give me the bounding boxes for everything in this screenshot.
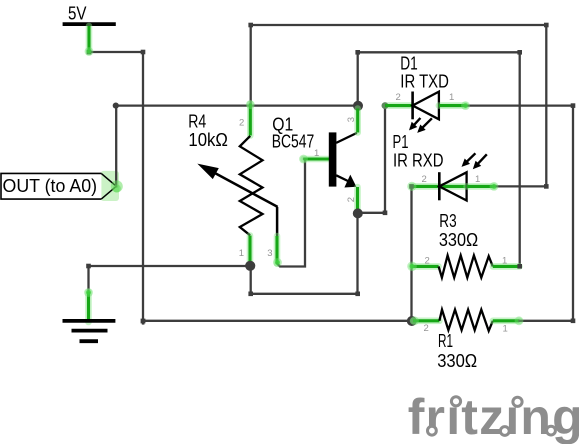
diode D1 body <box>413 92 439 120</box>
diode D1 pin 1 leg (green) <box>439 102 466 109</box>
glow endpoints overlay <box>84 47 523 325</box>
junction dot pot pin1 <box>245 261 255 271</box>
wire pot pin3 to base riser <box>277 159 305 267</box>
svg-text:IR TXD: IR TXD <box>400 72 449 92</box>
svg-text:3: 3 <box>267 248 272 259</box>
svg-text:R1: R1 <box>438 331 453 351</box>
svg-text:BC547: BC547 <box>272 132 315 152</box>
svg-text:1: 1 <box>475 174 480 185</box>
ground pin leg (green) <box>85 292 92 322</box>
resistor R1 zigzag body <box>439 310 492 331</box>
svg-text:1: 1 <box>239 248 244 259</box>
svg-text:1: 1 <box>503 324 508 335</box>
svg-text:3: 3 <box>346 117 357 122</box>
junction dot R1 left <box>407 316 417 326</box>
small endpoint dot D1 pin2 wire <box>382 102 389 109</box>
resistor R3 pin 2 leg (green) <box>412 263 439 270</box>
svg-text:2: 2 <box>239 117 244 128</box>
svg-text:2: 2 <box>425 256 430 267</box>
svg-text:2: 2 <box>346 197 357 202</box>
wire top rail 1 <box>251 25 547 186</box>
svg-text:R4: R4 <box>188 112 206 132</box>
svg-text:5V: 5V <box>68 4 87 24</box>
potentiometer R4 pin 3 leg (green) <box>274 236 281 264</box>
transistor Q1 body <box>329 132 357 187</box>
wire pot pin1 down to emitter rail <box>251 213 358 294</box>
diode D1 pin 2 leg (green) <box>385 102 413 109</box>
svg-text:R3: R3 <box>439 211 456 231</box>
svg-text:1: 1 <box>449 92 454 103</box>
wire 5V corner to vertical <box>89 51 143 53</box>
potentiometer R4 wiper arrow <box>197 164 277 237</box>
svg-text:10kΩ: 10kΩ <box>188 130 228 150</box>
svg-text:1: 1 <box>314 148 319 159</box>
transistor Q1 base leg (green) <box>304 156 334 163</box>
resistor R1 pin 2 leg (green) <box>413 317 439 324</box>
5V pin leg (green) <box>86 26 93 52</box>
wire P1 pin2 down left column <box>410 186 412 320</box>
svg-text:IR RXD: IR RXD <box>393 150 444 170</box>
wire P1 pin1 to rail1 <box>494 185 546 187</box>
svg-text:330Ω: 330Ω <box>437 351 477 371</box>
wire OUT connector vertical <box>115 106 117 187</box>
transistor Q1 collector leg (green) <box>354 109 361 133</box>
svg-text:2: 2 <box>424 323 429 334</box>
potentiometer R4 pin 2 leg (green) <box>247 104 254 136</box>
transistor Q1 emitter leg (green) <box>354 187 361 211</box>
svg-text:P1: P1 <box>393 132 409 152</box>
wire rail 2 <box>358 52 520 266</box>
photodiode P1 pin 2 leg (green) <box>412 183 467 190</box>
OUT label box <box>1 171 119 201</box>
photodiode P1 pin 1 leg (green) <box>467 183 494 190</box>
wire OUT rail horizontal to collector junction <box>116 104 358 106</box>
resistor R3 pin 1 leg (green) <box>493 263 520 270</box>
svg-text:D1: D1 <box>400 54 418 74</box>
svg-text:330Ω: 330Ω <box>439 230 478 250</box>
junction dot collector rail <box>353 101 363 111</box>
resistor R3 zigzag body <box>439 255 493 277</box>
diode D1 emission arrows <box>409 118 432 133</box>
wire emitter to D1 cathode riser <box>358 106 385 213</box>
resistor R1 pin 1 leg (green) <box>493 317 520 324</box>
wire bottom rail to R1 <box>143 320 412 322</box>
ground wire corner <box>89 266 251 292</box>
potentiometer R4 pin 1 leg (green) <box>247 236 254 266</box>
svg-text:2: 2 <box>422 174 427 185</box>
svg-text:2: 2 <box>396 92 401 103</box>
junction dot at 143,321 <box>141 319 146 324</box>
svg-text:OUT (to A0): OUT (to A0) <box>3 176 98 196</box>
photodiode P1 incident arrows <box>462 153 487 169</box>
potentiometer R4 zigzag body <box>240 136 263 235</box>
wire R1 pin1 to right column <box>520 320 574 322</box>
junction dot emitter <box>353 208 363 218</box>
photodiode P1 body <box>439 172 466 200</box>
ground symbol <box>63 321 116 341</box>
junction dot OUT rail <box>113 103 119 109</box>
fritzing logo <box>408 389 579 444</box>
svg-text:1: 1 <box>502 256 507 267</box>
wire vertical 5V drop x=143 <box>142 52 144 321</box>
wire D1 anode to right column <box>466 106 574 321</box>
wire corner squares <box>86 23 575 323</box>
5V power symbol bar <box>63 22 116 26</box>
